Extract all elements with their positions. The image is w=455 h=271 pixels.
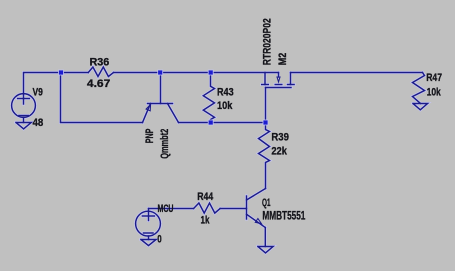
svg-text:M2: M2	[277, 53, 289, 66]
svg-text:48: 48	[33, 117, 44, 129]
svg-text:MCU: MCU	[158, 203, 174, 215]
svg-text:R43: R43	[217, 86, 234, 98]
svg-text:Q1: Q1	[262, 197, 271, 209]
svg-text:1k: 1k	[201, 215, 211, 227]
svg-text:Qmmbt2: Qmmbt2	[159, 129, 171, 159]
svg-text:PNP: PNP	[144, 128, 156, 143]
svg-text:MMBT5551: MMBT5551	[262, 209, 305, 223]
svg-text:RTR020P02: RTR020P02	[262, 18, 274, 65]
svg-text:0: 0	[157, 234, 162, 246]
svg-text:22k: 22k	[271, 146, 287, 158]
svg-text:V9: V9	[33, 86, 43, 98]
svg-text:10k: 10k	[427, 86, 442, 98]
svg-text:10k: 10k	[217, 100, 233, 112]
svg-text:4.67: 4.67	[87, 78, 110, 90]
svg-text:R44: R44	[197, 191, 214, 203]
svg-text:R36: R36	[90, 56, 110, 68]
svg-text:R39: R39	[271, 132, 289, 144]
svg-text:R47: R47	[426, 72, 442, 84]
